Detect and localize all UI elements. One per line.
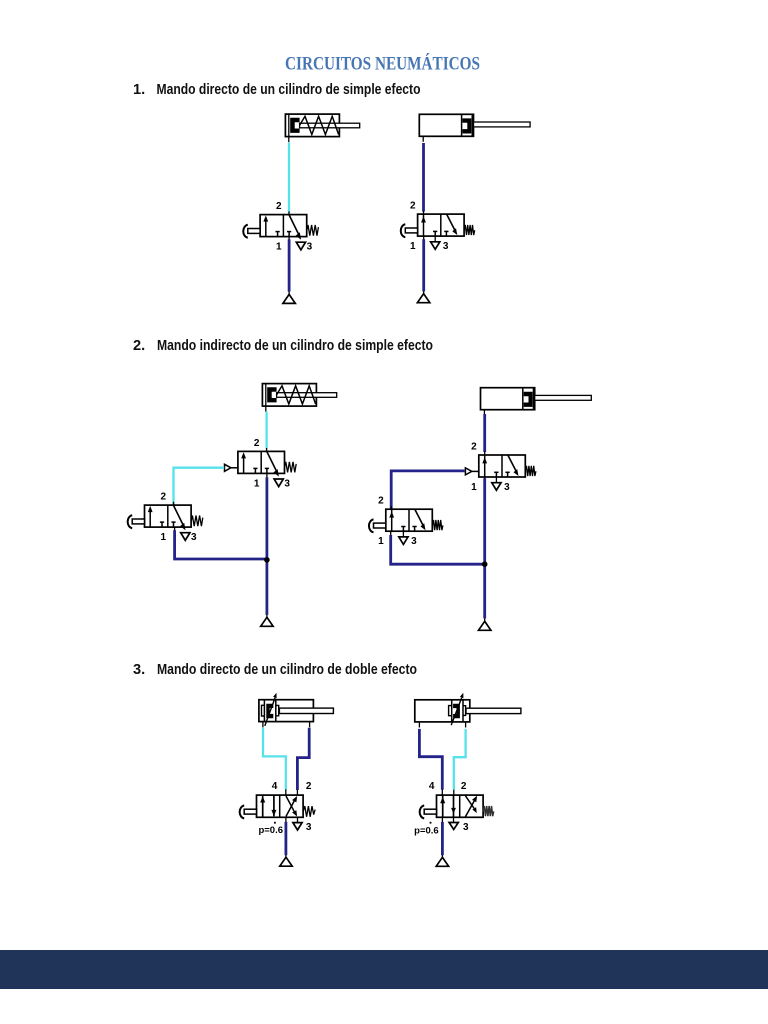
svg-text:Mando directo de un cilindro d: Mando directo de un cilindro de simple e… (157, 82, 421, 98)
wire navy V5 port 1 down to source (484, 477, 486, 481)
valve V3 (3/2 pilot valve, rest) (238, 438, 296, 490)
valve V1 (3/2 NC push-button, rest) (260, 201, 318, 253)
source P5 (280, 857, 292, 866)
source P6 (436, 857, 448, 866)
cylinder B2 (single-acting, extended) (481, 388, 592, 416)
junction node (264, 557, 270, 563)
wire navy V4 port 1 to junction (174, 527, 176, 531)
wire cyan cylinder C1 left port to valve V7 port 4 (263, 728, 286, 790)
wire cyan cylinder C2 right port to valve V8 port 2 (454, 729, 466, 790)
wire navy cylinder C1 right port to valve V7 port 2 (297, 728, 309, 790)
wire navy V6 port 1 to junction (390, 531, 392, 535)
source P3 (261, 617, 273, 626)
svg-text:Mando directo de un cilindro d: Mando directo de un cilindro de doble ef… (157, 662, 417, 678)
valve V4 (3/2 NC push-button, rest) (145, 492, 203, 544)
svg-text:CIRCUITOS NEUMÁTICOS: CIRCUITOS NEUMÁTICOS (285, 53, 480, 75)
wire navy V3 port 1 down to source (266, 473, 268, 478)
cylinder A1 (single-acting, retracted) (285, 114, 359, 142)
valve V2 (3/2 NC push-button, actuated) (410, 201, 475, 253)
wire cyan cylinder B1 to pilot valve V3 port 2 (265, 412, 267, 449)
valve V7 (4/2 push-button, rest) (257, 781, 316, 836)
stray dot above p=0.6 label V8 (430, 822, 432, 824)
wire navy manual valve V6 port 2 to pilot of V5 (391, 471, 464, 510)
footer bar (0, 950, 768, 989)
wire cyan cylinder A1 to valve V1 port 2 (288, 143, 290, 213)
svg-text:2.: 2. (133, 338, 145, 354)
cylinder A2 (single-acting, extended) (419, 114, 530, 142)
valve V6 (3/2 NC push-button, actuated) (378, 496, 443, 548)
source P1 (283, 294, 295, 303)
junction node (482, 561, 488, 567)
source P2 (417, 294, 429, 303)
cylinder C1 (double-acting, retracted) (259, 693, 334, 728)
wire navy V7 port 1 to source (285, 817, 287, 822)
stray dot above p=0.6 label V7 (274, 822, 276, 824)
wire navy V8 port 1 to source (441, 817, 443, 822)
cylinder C2 (double-acting, extended) (415, 693, 521, 728)
wire navy valve V1 port 1 to source (288, 237, 290, 240)
valve V8 (4/2 push-button, actuated) (414, 781, 494, 837)
svg-text:Mando indirecto de un cilindro: Mando indirecto de un cilindro de simple… (157, 338, 433, 354)
svg-text:3.: 3. (133, 662, 145, 678)
wire navy cylinder B2 to pilot valve V5 port 2 (483, 414, 486, 452)
cylinder B1 (single-acting, retracted) (262, 384, 336, 412)
wire cyan manual valve V4 port 2 to pilot of V3 (174, 468, 225, 506)
wire navy cylinder C2 left port to valve V8 port 4 (419, 729, 442, 790)
wire navy cylinder A2 to valve V2 port 2 (422, 143, 425, 212)
svg-text:1.: 1. (133, 82, 145, 98)
wire navy valve V2 port 1 to source (423, 236, 425, 240)
source P4 (479, 621, 491, 630)
valve V5 (3/2 pilot valve, actuated) (471, 441, 536, 493)
